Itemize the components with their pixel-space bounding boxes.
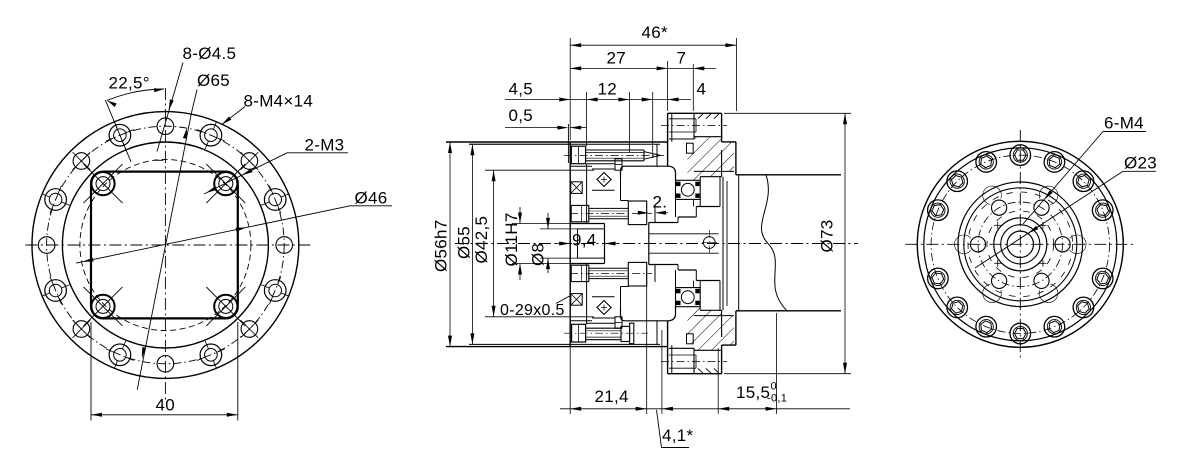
angular dim 22.5 radial line [105,100,131,162]
socket head screw at 135 deg [947,171,968,192]
top boss bolt centerline [661,124,727,126]
right view screw bolt circle dash-dot [931,155,1109,333]
svg-text:22,5°: 22,5° [109,74,150,93]
svg-text:9,4: 9,4 [572,230,597,249]
dim 40 line [91,414,238,416]
crossed roller bottom diamond [597,301,611,315]
corner hole M3 (-x,-y) [91,172,114,195]
wave generator top screw [571,146,585,164]
dim dia55 [471,144,473,344]
pin hole in hub [703,237,715,249]
output bearing bottom [676,288,701,307]
socket head screw at 157.5 deg [928,200,949,221]
tapped hole M4 at 240 deg [992,273,1007,288]
svg-text:0-29x0.5: 0-29x0.5 [500,302,565,319]
tapped hole M4 at 180 deg [970,237,985,252]
shaft break wavy line [761,175,787,311]
left view hidden circle dia46 dashed [80,160,251,331]
tapped hole M4 at 60 deg [1034,200,1049,215]
flange right face bottom [735,311,737,345]
right view outer circle [917,141,1123,347]
flange left face [667,113,669,166]
svg-text:Ø46: Ø46 [355,189,388,208]
o-ring section top [571,182,582,194]
socket head screw at 225 deg [947,297,968,318]
socket head screw at 292.5 deg [1044,316,1065,337]
mating shaft bottom line [736,310,841,312]
svg-text:4,5: 4,5 [509,80,534,99]
right view vertical centerline [1019,130,1021,358]
flange top-right step [721,113,723,142]
dim 46* [569,38,571,140]
tapped hole M4x14 at 202.5 deg [45,280,67,302]
hole dia4.5 plain at 270 deg [157,356,174,373]
bottom bolt boss outline [669,347,694,349]
flexspline hump bottom [621,307,676,321]
svg-text:Ø56h7: Ø56h7 [431,219,450,272]
right view horizontal centerline [905,243,1135,245]
flange hatching bottom [687,307,734,350]
washer block top [628,201,646,225]
input bore dia8 [578,228,605,230]
boss top strip hatch lines [698,113,704,118]
svg-text:2.: 2. [653,193,668,212]
roller race lines top [592,168,615,170]
tapped hole M4x14 at 292.5 deg [200,344,222,366]
svg-text:21,4: 21,4 [595,387,629,406]
dim dia42.5 [493,170,495,317]
svg-text:Ø65: Ø65 [197,71,230,90]
inner screw top [571,205,589,221]
svg-text:8-M4×14: 8-M4×14 [244,92,314,111]
crossed roller top diamond [597,173,611,187]
svg-text:Ø11H7: Ø11H7 [502,212,521,266]
dim 4.1* [662,407,673,411]
housing step lines bottom [570,320,592,322]
svg-text:-0,1: -0,1 [767,393,787,405]
svg-text:8-Ø4.5: 8-Ø4.5 [183,44,237,63]
left view vertical centerline [164,88,166,400]
leader 8-dia4.5 [157,63,183,152]
right view flexspline circle [958,182,1083,307]
o-ring section bottom [571,294,582,306]
svg-text:Ø23: Ø23 [1124,154,1157,173]
washer block bottom [628,262,646,286]
leader 8-M4x14 [222,107,246,125]
bottom dim line [560,408,850,410]
svg-text:15,5: 15,5 [736,383,770,402]
dim dia11H7 [519,207,521,224]
wave generator plate top edges [587,163,615,165]
dim 21.4 [570,407,581,411]
svg-text:6-M4: 6-M4 [1104,114,1144,133]
socket head screw at 337.5 deg [1092,268,1113,289]
leader 2-M3 [287,152,348,154]
seal groove notch top [687,143,694,153]
hole dia4.5 plain at 0 deg [276,237,293,254]
dim 2 [638,212,647,214]
flange bore walls [719,177,721,207]
dim 9.4 [556,243,569,245]
flange spigot step verticals [671,113,673,142]
hole dia4.5 with diagonal cross at 135 deg [73,153,90,170]
right view hub circle [994,218,1047,271]
svg-text:Ø73: Ø73 [818,219,837,252]
wave generator bottom screw [572,324,586,342]
tapped hole M4x14 at 22.5 deg [264,189,286,211]
corner hole M3 (+x,-y) [214,172,237,195]
corner hole M3 (+x,+y) [214,295,237,318]
top screw axis [564,154,664,156]
flange bore step top [700,176,721,178]
boss bottom strip hatch lines [698,368,704,373]
wave generator plate right face [586,164,588,224]
housing cup edge dia55 bottom [469,343,660,345]
right view inner flexspline circle [964,188,1077,301]
circlip stack bottom [615,317,622,328]
seal groove notch bottom [687,334,694,344]
tapped hole M4 at 300 deg [1034,273,1049,288]
flange bottom-right step [721,345,723,374]
bottom screw axis [564,332,648,334]
shaft end face [738,175,740,311]
svg-text:2-M3: 2-M3 [305,136,345,155]
hole dia4.5 with diagonal cross at 225 deg [73,321,90,338]
left view bolt circle dia65 dash-dot [47,126,285,364]
right view hidden circle r33 [987,211,1054,278]
housing top edge dia56h7 with left extension [446,141,668,143]
inner screw bottom [571,265,589,281]
hole dia4.5 plain at 180 deg [38,237,55,254]
hole dia4.5 plain at 90 deg [157,118,174,135]
angular dim 22.5 arc [107,89,164,100]
circlip stack top [615,159,622,170]
cup boss face [654,205,656,223]
top bolt boss outline [669,138,694,140]
svg-text:4: 4 [697,80,707,99]
socket head screw at 90 deg [1010,145,1031,166]
dim 27 and 7 [667,61,669,111]
leader dia23 [1123,170,1156,172]
dim 0.5 [505,127,566,129]
housing cup edge dia55 top [469,143,660,145]
svg-text:46*: 46* [642,23,669,42]
right view hidden circle r52 [968,192,1073,297]
tapped hole M4x14 at 337.5 deg [264,280,286,302]
socket head screw at 22.5 deg [1092,200,1113,221]
svg-text:Ø8: Ø8 [529,243,548,266]
bottom boss tapped hole [669,354,696,356]
cup rim protruding 0.5 [567,124,569,163]
oldham slot marks [1039,224,1046,226]
socket head screw at 270 deg [1010,323,1031,344]
flange top edge [668,112,722,114]
left dims extension lines [446,141,568,143]
bottom dims extension lines [569,347,571,414]
inner screw bottom axis [570,272,652,274]
bearing sleeve verticals [699,199,701,206]
output hub stepped profile top [648,223,650,265]
svg-text:4,1*: 4,1* [662,426,694,445]
dim dia73 [724,112,851,114]
flange right face top [735,142,737,175]
inner screw top axis [570,213,652,215]
flange bore step bottom [700,309,721,311]
cup outer rim verticals [656,144,658,166]
svg-text:7: 7 [677,49,687,68]
leader dia65 diameter line [192,90,198,113]
right view M4 bolt circle dash-dot [978,202,1063,287]
output bearing top [676,180,701,199]
tapped hole M4x14 at 157.5 deg [45,189,67,211]
tapped hole M4 at 120 deg [992,200,1007,215]
svg-text:40: 40 [156,396,176,415]
flange bottom edge [668,373,722,375]
roller race lines bottom [592,296,615,298]
tapped hole M4x14 at 247.5 deg [109,344,131,366]
flexspline hump top [621,166,676,180]
dim dia8 [547,213,549,229]
svg-text:Ø55: Ø55 [455,226,474,259]
square hub outline 40x40 bold [91,172,238,319]
tapped hole M4x14 at 67.5 deg [200,124,222,146]
left view horizontal centerline [25,244,311,246]
right view boss circle [1001,225,1040,264]
dim 15.5 with tolerance [718,407,729,411]
leader dia46 diameter line [350,205,392,207]
hole dia4.5 with diagonal cross at 315 deg [241,321,258,338]
socket head screw at 67.5 deg [1044,152,1065,173]
svg-text:0,5: 0,5 [509,106,534,125]
right view center bore circle [1007,231,1033,257]
top boss tapped hole [669,118,696,120]
svg-text:12: 12 [598,80,618,99]
dim 40 extension lines [90,322,92,421]
svg-text:0: 0 [771,381,777,393]
output hub inner lines [649,233,719,235]
middle view main centerline [455,243,858,245]
flange hatching top [687,137,734,180]
socket head screw at 112.5 deg [976,152,997,173]
socket head screw at 45 deg [1073,171,1094,192]
corner hole M3 (-x,+y) [91,295,114,318]
input bore dia11H7 [570,223,604,225]
mating shaft top line [736,174,841,176]
socket head screw at 247.5 deg [976,316,997,337]
hole dia4.5 with diagonal cross at 45 deg [241,153,258,170]
output hub stepped profile bottom [649,264,678,266]
dim 4.5 12 4 line [505,99,691,101]
housing left face [569,142,571,347]
left view outer circle flange OD 73 [32,112,299,379]
svg-text:27: 27 [607,49,627,68]
tapped hole M4x14 at 112.5 deg [109,124,131,146]
dim dia56h7 [449,142,451,347]
bottom boss bolt centerline [661,361,727,363]
leader 6-M4 [1103,131,1146,133]
housing step lines top [570,165,592,167]
socket head screw at 202.5 deg [928,268,949,289]
svg-text:Ø42,5: Ø42,5 [472,216,491,264]
socket head screw at 315 deg [1073,297,1094,318]
tapped hole M4 at 0 deg [1055,237,1070,252]
housing bottom edge dia56h7 with left extension [446,346,668,348]
left view inner circle housing dia56 [62,142,268,348]
right view second circle [924,148,1117,341]
